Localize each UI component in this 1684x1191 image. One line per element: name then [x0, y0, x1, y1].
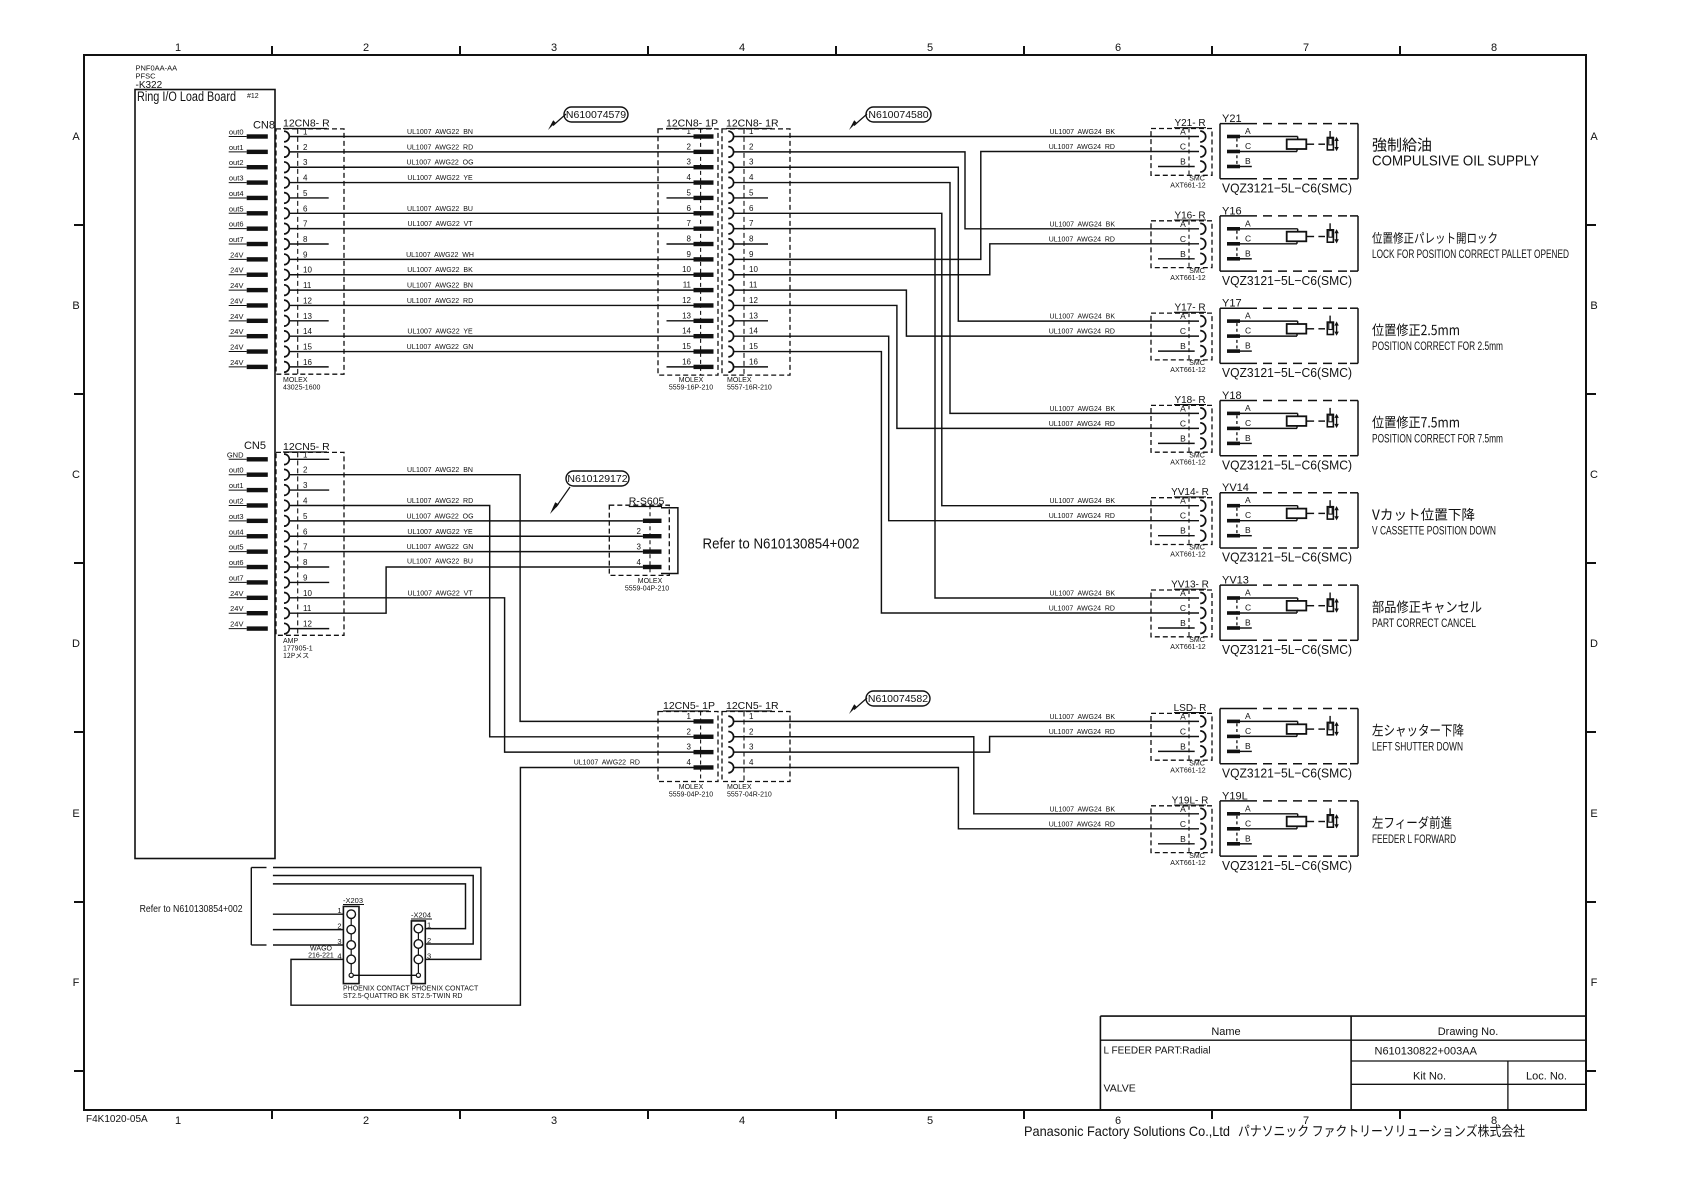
CN8 pin 2 (out1): [229, 143, 268, 154]
svg-text:F: F: [1591, 977, 1598, 989]
CN5 pin 6 (out4): [229, 527, 268, 538]
svg-text:MOLEX: MOLEX: [283, 377, 308, 384]
svg-text:12CN5- 1R: 12CN5- 1R: [726, 700, 779, 712]
wire stub 12CN8-R.5: [289, 197, 328, 199]
wire 12CN8-R.15 to 12CN8-1P.15 UL1007 AWG22 GN: [289, 344, 693, 352]
svg-text:C: C: [1245, 418, 1251, 428]
svg-text:UL1007 AWG22 YE: UL1007 AWG22 YE: [407, 529, 473, 536]
svg-text:ST2.5-QUATTRO BK: ST2.5-QUATTRO BK: [343, 993, 409, 1000]
valve Y18 function label (en): [1372, 431, 1503, 445]
valve Y16 solenoid symbol: [1327, 223, 1339, 243]
svg-text:C: C: [1180, 819, 1186, 829]
12CN8-1P pin 15: [682, 342, 713, 354]
svg-text:1: 1: [175, 42, 181, 54]
svg-text:VQZ3121−5L−C6(SMC): VQZ3121−5L−C6(SMC): [1222, 273, 1352, 288]
connector 12CN5-1R body: [722, 712, 790, 782]
svg-text:16: 16: [749, 357, 758, 366]
svg-text:10: 10: [303, 589, 312, 598]
wire X203 shield to X204 shield: [353, 974, 416, 976]
svg-text:3: 3: [749, 158, 754, 167]
connector R-S605 label: [629, 496, 665, 508]
svg-text:UL1007 AWG24 RD: UL1007 AWG24 RD: [1049, 236, 1115, 243]
connector Y21-R body: [1151, 129, 1212, 176]
12CN8-R contact 16: [284, 358, 312, 372]
svg-text:12CN8- 1P: 12CN8- 1P: [666, 118, 718, 130]
valve YV13 terminal B: [1227, 618, 1251, 630]
connector Y18-R label: [1174, 395, 1206, 406]
svg-text:UL1007 AWG22 BN: UL1007 AWG22 BN: [407, 467, 473, 474]
valve Y17 function label (jp): [1372, 323, 1459, 336]
wire X203.4 to 12CN5-1P.4: [291, 768, 694, 1006]
svg-text:3: 3: [427, 951, 431, 960]
wire 12CN8-R.6 to 12CN8-1P.6 UL1007 AWG22 BU: [289, 206, 693, 214]
svg-text:C: C: [1590, 469, 1598, 481]
12CN8-1R contact 11: [728, 281, 758, 296]
12CN8-1R contact 2: [728, 142, 754, 157]
wire label UL1007 AWG24 BK at Y16: [1050, 221, 1116, 228]
svg-text:UL1007 AWG22 BK: UL1007 AWG22 BK: [407, 267, 473, 274]
svg-text:5: 5: [749, 188, 754, 197]
12CN8-1P pin 2: [687, 142, 714, 154]
12CN5-R contact 6: [284, 527, 308, 541]
connector Y19L-R label: [1172, 795, 1209, 806]
connector 12CN5-R label: [283, 441, 330, 453]
connector 12CN8-R label: [283, 118, 330, 130]
svg-text:AXT661-12: AXT661-12: [1170, 860, 1206, 867]
solenoid valve YV13 body: [1220, 575, 1358, 641]
svg-text:1: 1: [303, 128, 308, 137]
svg-text:24V: 24V: [230, 343, 243, 352]
connector Y19L-R body: [1151, 806, 1212, 853]
svg-text:out5: out5: [229, 204, 244, 213]
CN5 pin 1 (GND): [227, 450, 268, 461]
svg-text:12CN5- 1P: 12CN5- 1P: [663, 700, 715, 712]
12CN8-1R contact 13: [728, 311, 758, 326]
svg-text:LOCK FOR POSITION CORRECT PALL: LOCK FOR POSITION CORRECT PALLET OPENED: [1372, 247, 1569, 261]
PHOENIX CONTACT ST2.5-TWIN RD label: [412, 986, 479, 1001]
svg-text:8: 8: [1491, 42, 1497, 54]
board label -K322: [136, 80, 163, 91]
valve YV14 terminal B: [1227, 525, 1251, 537]
svg-text:A: A: [1180, 496, 1186, 506]
12CN8-1R contact 7: [728, 219, 754, 234]
svg-text:4: 4: [687, 173, 692, 182]
wire label UL1007 AWG24 BK at Y19L: [1050, 806, 1116, 813]
svg-text:AXT661-12: AXT661-12: [1170, 183, 1206, 190]
valve YV13 model VQZ3121-5L-C6(SMC): [1222, 642, 1352, 657]
12CN5-1P pin 1: [687, 712, 714, 724]
valve Y16 model VQZ3121-5L-C6(SMC): [1222, 273, 1352, 288]
12CN5-R contact 7: [284, 543, 308, 557]
wire stub 12CN8-1R.13: [733, 320, 768, 322]
svg-text:2: 2: [749, 142, 754, 151]
svg-text:UL1007 AWG22 RD: UL1007 AWG22 RD: [407, 498, 473, 505]
Y21-R contact A: [1180, 127, 1206, 143]
wire label UL1007 AWG24 RD at Y17: [1049, 329, 1115, 336]
12CN8-R contact 6: [284, 204, 308, 218]
svg-text:24V: 24V: [230, 281, 243, 290]
valve LSD function label (en): [1372, 739, 1463, 753]
note Refer to N610130854+002 (R-S605): [703, 537, 860, 553]
connector 12CN5-1R label: [726, 700, 779, 712]
valve Y17 solenoid symbol: [1327, 316, 1339, 336]
solenoid valve Y19L body: [1220, 790, 1358, 856]
svg-text:AXT661-12: AXT661-12: [1170, 459, 1206, 466]
svg-text:2: 2: [363, 42, 369, 54]
svg-text:B: B: [1245, 156, 1251, 166]
12CN5-R contact 9: [284, 573, 308, 587]
CN8 pin 12 (24V): [229, 296, 268, 307]
svg-text:Refer to N610130854+002: Refer to N610130854+002: [703, 537, 860, 553]
svg-text:B: B: [72, 300, 79, 312]
svg-text:24V: 24V: [230, 312, 243, 321]
valve Y16 terminal A: [1227, 218, 1251, 230]
12CN5-1P part number MOLEX 5559-04P-210: [669, 784, 713, 799]
solenoid valve LSD body: [1220, 709, 1358, 764]
svg-text:4: 4: [739, 1115, 745, 1127]
svg-text:D: D: [72, 638, 80, 650]
wire 12CN8-1R.2 to valve Y16 A: [733, 152, 1199, 229]
svg-text:E: E: [1590, 808, 1597, 820]
CN8 pin 7 (out6): [229, 220, 268, 231]
valve Y17 actuator link: [1306, 328, 1325, 330]
valve Y21 model VQZ3121-5L-C6(SMC): [1222, 181, 1352, 196]
svg-text:A: A: [1245, 403, 1251, 413]
svg-text:A: A: [1180, 127, 1186, 137]
connector YV13-R label: [1171, 580, 1209, 591]
svg-text:4: 4: [303, 174, 308, 183]
Y18-R contact C: [1180, 418, 1206, 434]
CN5 pin 8 (out6): [229, 558, 268, 569]
Y16-R contact B: [1158, 249, 1206, 265]
svg-text:out0: out0: [229, 466, 244, 475]
connector Y16-R body: [1151, 221, 1212, 268]
YV14-R contact C: [1180, 511, 1206, 527]
svg-text:7: 7: [303, 220, 308, 229]
svg-text:UL1007 AWG24 RD: UL1007 AWG24 RD: [1049, 329, 1115, 336]
svg-text:1: 1: [749, 712, 754, 721]
svg-text:8: 8: [303, 235, 308, 244]
svg-text:MOLEX: MOLEX: [727, 377, 752, 384]
wire 12CN5-1R.2 to valve Y19L A: [733, 737, 1199, 814]
R-S605 mating bracket: [661, 508, 678, 574]
wire 12CN8-1R.4 to valve Y18 A: [733, 183, 1199, 414]
drawing number F4K1020-05A: [86, 1114, 148, 1125]
external link bracket: [251, 868, 266, 946]
svg-text:UL1007 AWG24 BK: UL1007 AWG24 BK: [1050, 806, 1116, 813]
svg-text:WAGO: WAGO: [310, 946, 332, 953]
connector R-S605 body: [609, 505, 669, 575]
wire stub 12CN8-1R.5: [733, 197, 768, 199]
wire 12CN8-1R.14 to valve YV14 C: [733, 336, 1199, 521]
svg-text:C: C: [1180, 142, 1186, 152]
wire label UL1007 AWG24 BK at Y18: [1050, 406, 1116, 413]
12CN8-1P pin 10: [682, 265, 713, 277]
svg-text:3: 3: [337, 937, 341, 946]
valve Y19L terminal C: [1227, 818, 1251, 830]
valve Y17 function label (en): [1372, 339, 1503, 353]
solenoid valve Y16 body: [1220, 205, 1358, 271]
svg-text:2: 2: [337, 922, 341, 931]
solenoid valve Y18 body: [1220, 390, 1358, 456]
valve Y18 terminal link: [1236, 415, 1238, 441]
12CN8-1R part number MOLEX 5557-16R-210: [727, 377, 772, 392]
Y18-R contact B: [1158, 433, 1206, 449]
wire stub 12CN8-R.16: [289, 366, 328, 368]
svg-text:8: 8: [303, 558, 308, 567]
svg-text:out5: out5: [229, 543, 244, 552]
CN8 pin 4 (out3): [229, 174, 268, 185]
wire 12CN8-1R.11 to valve Y17 C: [733, 290, 1199, 336]
svg-text:V CASSETTE POSITION DOWN: V CASSETTE POSITION DOWN: [1372, 524, 1496, 538]
12CN8-1P pin 11: [683, 281, 714, 293]
R-S605 part number MOLEX 5559-04P-210: [625, 578, 669, 593]
svg-text:SMC: SMC: [1189, 268, 1205, 275]
svg-text:MOLEX: MOLEX: [638, 578, 663, 585]
12CN8-1R contact 8: [728, 235, 754, 250]
CN8 pin 9 (24V): [229, 250, 268, 261]
svg-text:C: C: [1245, 510, 1251, 520]
svg-text:N610074579: N610074579: [566, 109, 626, 121]
valve YV14 solenoid symbol: [1327, 500, 1339, 520]
svg-text:B: B: [1180, 741, 1186, 751]
svg-text:UL1007 AWG22 WH: UL1007 AWG22 WH: [406, 252, 474, 259]
wire 12CN5-1R.4 to valve Y19L C: [733, 767, 1199, 828]
valve Y16 function label (jp): [1372, 232, 1496, 244]
svg-text:5: 5: [687, 188, 692, 197]
wire 12CN8-R.3 to 12CN8-1P.3 UL1007 AWG22 OG: [289, 160, 693, 168]
CN8 pin 15 (24V): [229, 343, 268, 354]
svg-text:GND: GND: [227, 450, 244, 459]
svg-text:4: 4: [749, 758, 754, 767]
svg-text:Drawing No.: Drawing No.: [1438, 1026, 1499, 1038]
svg-text:POSITION CORRECT FOR 2.5mm: POSITION CORRECT FOR 2.5mm: [1372, 339, 1503, 353]
Y17-R part number SMC AXT661-12: [1170, 360, 1206, 374]
svg-text:UL1007 AWG22 BU: UL1007 AWG22 BU: [407, 559, 473, 566]
svg-text:24V: 24V: [230, 266, 243, 275]
Y17-R contact A: [1180, 311, 1206, 327]
wire 12CN8-1R.7 to valve YV13 A: [733, 229, 1199, 598]
valve Y19L model VQZ3121-5L-C6(SMC): [1222, 858, 1352, 873]
svg-text:A: A: [1245, 803, 1251, 813]
svg-text:SMC: SMC: [1189, 637, 1205, 644]
12CN5-1P pin 4: [687, 758, 714, 770]
svg-text:ST2.5-TWIN RD: ST2.5-TWIN RD: [412, 993, 463, 1000]
svg-text:24V: 24V: [230, 327, 243, 336]
wire 12CN5-R.4 to 12CN5-1P.2 UL1007 AWG22 RD: [289, 498, 693, 737]
wire 12CN5-1R.1 to valve LSD A: [733, 720, 1199, 722]
connector Y21-R label: [1174, 118, 1206, 129]
Ring I/O Load Board -K322: [135, 90, 275, 859]
12CN8-1P pin 3: [687, 158, 714, 170]
12CN8-1P pin 13: [667, 311, 714, 323]
svg-text:15: 15: [749, 342, 758, 351]
12CN8-1R contact 12: [728, 296, 758, 311]
svg-text:UL1007 AWG22 BN: UL1007 AWG22 BN: [407, 283, 473, 290]
valve Y21 function label (en): [1372, 153, 1539, 170]
12CN5-R part number AMP 177905-1 12P: [283, 638, 313, 658]
wire label UL1007 AWG24 RD at Y21: [1049, 144, 1115, 151]
svg-text:5: 5: [927, 42, 933, 54]
svg-text:SMC: SMC: [1189, 452, 1205, 459]
svg-text:C: C: [1180, 726, 1186, 736]
svg-text:UL1007 AWG22 GN: UL1007 AWG22 GN: [407, 544, 474, 551]
12CN8-R contact 15: [284, 343, 312, 357]
wire stub 12CN8-1R.16: [733, 366, 768, 368]
12CN8-R contact 11: [284, 281, 312, 295]
wire label UL1007 AWG24 BK at Y17: [1050, 314, 1116, 321]
svg-text:15: 15: [682, 342, 691, 351]
svg-text:UL1007 AWG24 RD: UL1007 AWG24 RD: [1049, 513, 1115, 520]
R-S605 pin 2: [637, 527, 662, 538]
svg-text:-X204: -X204: [411, 911, 431, 920]
wire 12CN5-R.5 to R-S605.1 UL1007 AWG22 OG: [289, 513, 643, 521]
svg-text:1: 1: [427, 921, 431, 930]
CN5 pin 9 (out7): [229, 573, 268, 584]
svg-text:1: 1: [687, 712, 692, 721]
svg-text:11: 11: [303, 281, 312, 290]
svg-text:B: B: [1180, 157, 1186, 167]
valve YV13 solenoid symbol: [1327, 593, 1339, 613]
Y21-R part number SMC AXT661-12: [1170, 176, 1206, 190]
svg-text:A: A: [1245, 495, 1251, 505]
valve YV14 function label (jp): [1372, 508, 1475, 521]
svg-text:E: E: [72, 808, 79, 820]
svg-text:#12: #12: [247, 93, 259, 100]
svg-text:C: C: [1180, 511, 1186, 521]
12CN8-R part number MOLEX 43025-1600: [283, 377, 320, 392]
svg-text:F4K1020-05A: F4K1020-05A: [86, 1114, 148, 1125]
valve Y19L terminal link: [1236, 816, 1238, 842]
svg-text:1: 1: [175, 1115, 181, 1127]
svg-text:3: 3: [687, 743, 692, 752]
svg-text:UL1007 AWG24 RD: UL1007 AWG24 RD: [1049, 421, 1115, 428]
svg-text:1: 1: [303, 450, 308, 459]
svg-text:C: C: [1180, 603, 1186, 613]
svg-text:UL1007 AWG22 OG: UL1007 AWG22 OG: [406, 160, 473, 167]
svg-text:2: 2: [637, 527, 642, 536]
12CN8-1R contact 14: [728, 327, 758, 342]
YV13-R contact A: [1180, 588, 1206, 604]
svg-text:2: 2: [687, 142, 692, 151]
12CN5-1R contact 2: [728, 727, 754, 742]
svg-text:C: C: [72, 469, 80, 481]
YV14-R contact B: [1158, 526, 1206, 542]
12CN8-1P part number MOLEX 5559-16P-210: [669, 377, 713, 392]
12CN8-R contact 8: [284, 235, 308, 249]
svg-text:UL1007 AWG22 YE: UL1007 AWG22 YE: [407, 329, 473, 336]
svg-text:4: 4: [303, 496, 308, 505]
svg-text:A: A: [1245, 218, 1251, 228]
YV13-R contact C: [1180, 603, 1206, 619]
12CN5-R contact 4: [284, 496, 308, 510]
valve Y17 coil: [1240, 321, 1306, 351]
svg-text:MOLEX: MOLEX: [679, 784, 704, 791]
svg-text:6: 6: [303, 527, 308, 536]
wire stub 12CN5-R.1: [289, 458, 329, 460]
svg-text:UL1007 AWG24 RD: UL1007 AWG24 RD: [1049, 144, 1115, 151]
svg-text:3: 3: [551, 42, 557, 54]
svg-text:9: 9: [749, 250, 754, 259]
12CN8-1R contact 15: [728, 342, 758, 357]
note Refer to N610130854+002 (bottom): [140, 903, 243, 915]
CN8 pin 6 (out5): [229, 204, 268, 215]
svg-text:9: 9: [303, 573, 308, 582]
wire 12CN8-R.10 to 12CN8-1P.10 UL1007 AWG22 BK: [289, 267, 693, 275]
connector 12CN8-1P label: [666, 118, 718, 130]
svg-text:out7: out7: [229, 573, 244, 582]
valve LSD terminal A: [1227, 711, 1251, 723]
board label PFSC: [136, 72, 157, 81]
12CN8-R contact 4: [284, 174, 308, 188]
svg-text:3: 3: [749, 743, 754, 752]
valve Y18 function label (jp): [1372, 416, 1459, 429]
solenoid valve YV14 body: [1220, 482, 1358, 548]
CN8 pin 8 (out7): [229, 235, 268, 246]
valve Y18 coil: [1240, 413, 1306, 443]
wire 12CN5-R.7 to R-S605.3 UL1007 AWG22 GN: [289, 544, 643, 552]
connector YV13-R body: [1151, 590, 1212, 637]
svg-text:C: C: [1180, 326, 1186, 336]
connector 12CN8-1R label: [726, 118, 779, 130]
svg-text:A: A: [1180, 588, 1186, 598]
svg-text:LEFT SHUTTER DOWN: LEFT SHUTTER DOWN: [1372, 739, 1463, 753]
valve Y16 terminal link: [1236, 231, 1238, 257]
connector 12CN5-1P body: [658, 712, 718, 782]
12CN8-R contact 5: [284, 189, 308, 203]
cable tag N610074582: [849, 691, 930, 714]
connector 12CN8-1P body: [658, 129, 718, 375]
wire label UL1007 AWG24 RD at YV14: [1049, 513, 1115, 520]
svg-text:C: C: [1180, 234, 1186, 244]
svg-text:-X203: -X203: [343, 896, 363, 905]
R-S605 pin 4: [637, 558, 662, 569]
valve YV13 function label (jp): [1373, 600, 1482, 613]
valve Y21 terminal A: [1227, 126, 1251, 138]
wire stub 12CN5-R.9: [289, 581, 329, 583]
connector CN5 label: [244, 440, 266, 452]
svg-text:UL1007 AWG24 BK: UL1007 AWG24 BK: [1050, 129, 1116, 136]
valve Y17 terminal B: [1227, 341, 1251, 353]
12CN8-1R contact 5: [728, 188, 754, 203]
svg-text:5557-04R-210: 5557-04R-210: [727, 792, 772, 799]
svg-text:2: 2: [427, 936, 431, 945]
svg-text:B: B: [1180, 618, 1186, 628]
wire 12CN8-1R.9 to valve Y21 C: [733, 152, 1199, 260]
12CN8-1R contact 10: [728, 265, 758, 280]
svg-text:UL1007 AWG22 VT: UL1007 AWG22 VT: [407, 221, 473, 228]
wire to X203.1: [273, 913, 344, 915]
valve Y18 terminal C: [1227, 418, 1251, 430]
svg-text:4: 4: [337, 951, 341, 960]
Y19L-R contact C: [1180, 819, 1206, 835]
CN5 pin 7 (out5): [229, 543, 268, 554]
12CN8-1P pin 1: [687, 127, 714, 139]
wire label UL1007 AWG24 BK at YV14: [1050, 498, 1116, 505]
svg-text:UL1007 AWG22 OG: UL1007 AWG22 OG: [406, 513, 473, 520]
wire 12CN5-1R.3 to valve LSD C: [733, 737, 1199, 753]
svg-text:3: 3: [551, 1115, 557, 1127]
svg-text:13: 13: [682, 311, 691, 320]
12CN8-R contact 12: [284, 296, 312, 310]
connector Y17-R body: [1151, 313, 1212, 360]
svg-text:B: B: [1180, 249, 1186, 259]
svg-text:3: 3: [303, 481, 308, 490]
12CN8-1R contact 3: [728, 158, 754, 173]
svg-text:VQZ3121−5L−C6(SMC): VQZ3121−5L−C6(SMC): [1222, 457, 1352, 472]
svg-text:MOLEX: MOLEX: [679, 377, 704, 384]
wire label UL1007 AWG24 RD at YV13: [1049, 606, 1115, 613]
